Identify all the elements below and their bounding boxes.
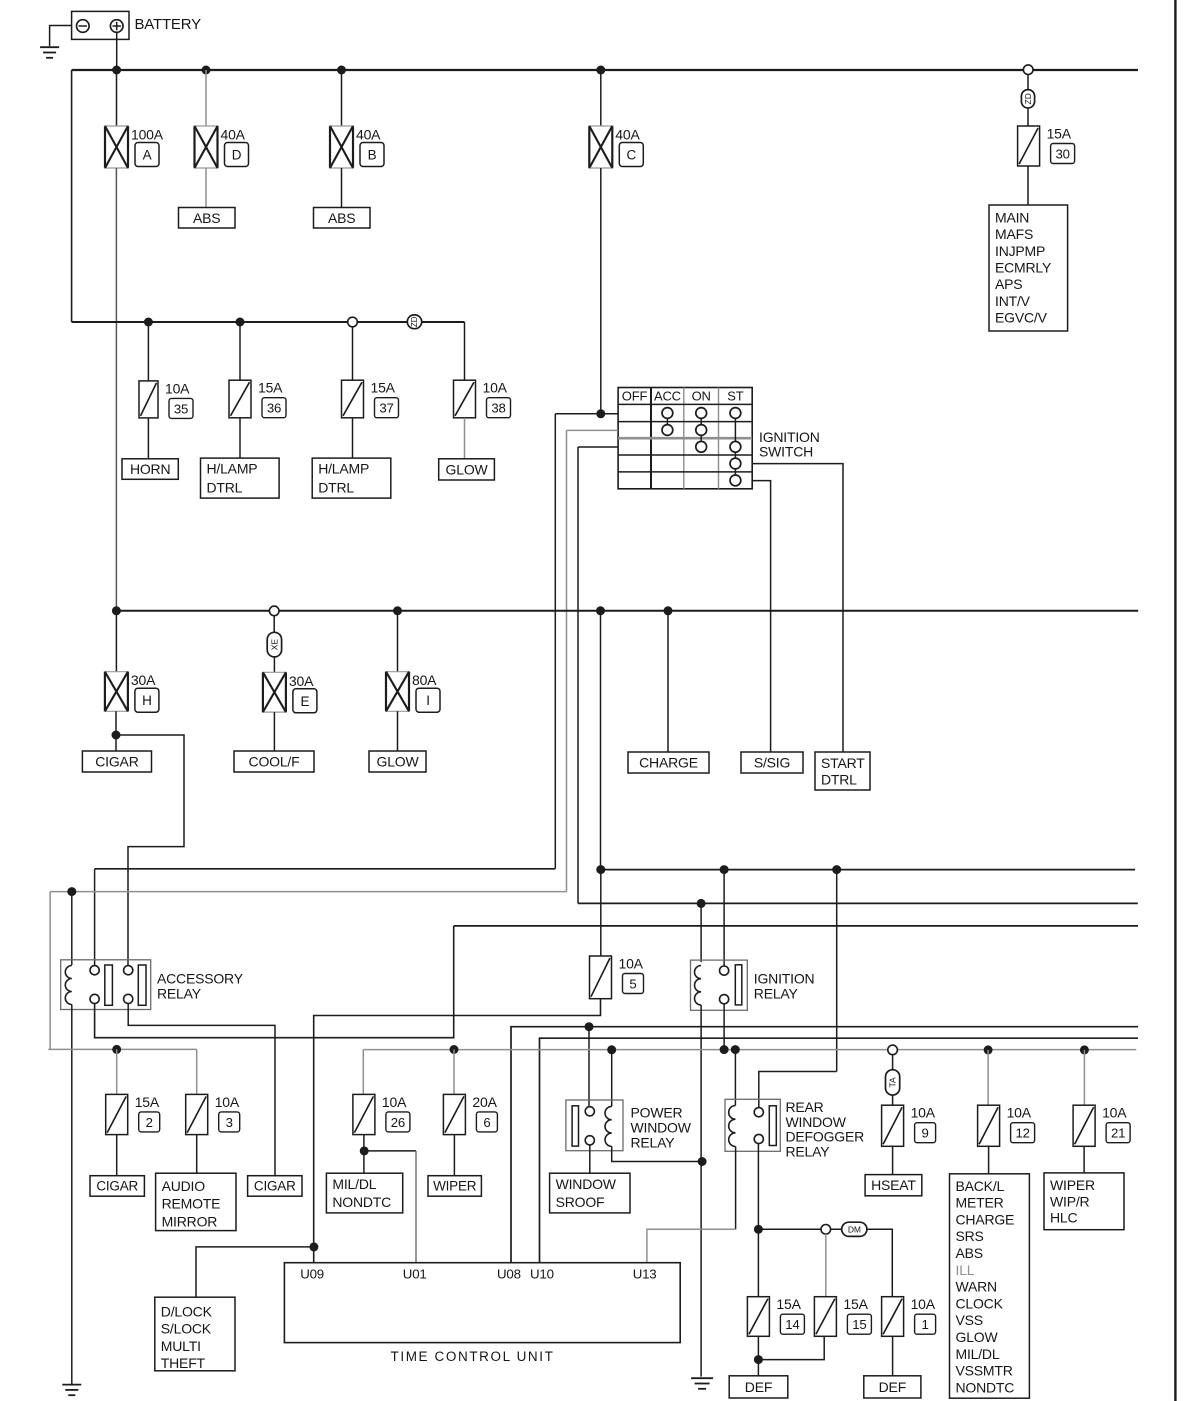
connector DM	[842, 1222, 867, 1236]
wire pw relay coil to ground	[612, 1146, 701, 1161]
wire relay contact feed bus	[601, 869, 1135, 871]
svg-text:THEFT: THEFT	[161, 1355, 206, 1371]
wire export branch (fuse6 row feed)	[454, 925, 1138, 927]
svg-text:U13: U13	[633, 1266, 657, 1281]
node pw relay coil tap	[607, 1045, 616, 1054]
wire ignition relay coil to ground	[700, 1005, 702, 1162]
fuse 36 15A	[229, 380, 286, 418]
wire fuse B to ABS	[341, 168, 343, 208]
relay: power window relay	[566, 1100, 623, 1151]
wire ON row riser	[577, 447, 579, 903]
wire ACC row stub	[567, 429, 619, 431]
svg-text:14: 14	[785, 1317, 799, 1332]
svg-text:U10: U10	[530, 1266, 554, 1281]
svg-text:U08: U08	[497, 1266, 521, 1281]
node fuse 37 connector tap	[348, 317, 358, 327]
svg-text:15: 15	[852, 1317, 866, 1332]
connector XE	[267, 632, 281, 657]
svg-text:H/LAMP: H/LAMP	[207, 461, 258, 477]
svg-text:DEFOGGER: DEFOGGER	[786, 1129, 865, 1145]
wire fuse 2 to CIGAR	[116, 1135, 118, 1176]
svg-text:DM: DM	[848, 1224, 861, 1234]
wire defogger contact feed	[759, 1072, 837, 1109]
wire pw relay output to sunroof	[589, 1145, 591, 1173]
svg-text:U09: U09	[300, 1266, 324, 1281]
wire defogger contact feed drop	[836, 870, 838, 1072]
ignition switch label	[759, 429, 820, 459]
load box START DTRL	[815, 752, 870, 790]
wire fuse 3 to audio	[196, 1135, 198, 1174]
wire ZD to fuse 30	[1027, 108, 1029, 126]
load box MIL/DL NONDTC	[326, 1173, 402, 1213]
wire fuse 38 to GLOW	[464, 418, 466, 459]
load box DEF (2)	[864, 1376, 921, 1398]
svg-text:35: 35	[174, 401, 188, 416]
node ignition relay contact tap	[720, 865, 729, 874]
svg-text:10A: 10A	[1102, 1105, 1127, 1121]
load box S/SIG	[741, 752, 803, 773]
node bus3 main drop	[596, 606, 605, 615]
fuse 6 20A	[443, 1094, 497, 1135]
svg-text:CHARGE: CHARGE	[639, 755, 698, 771]
svg-text:B: B	[368, 148, 377, 163]
wire fuse 36 to H/LAMP DTRL	[239, 418, 241, 458]
svg-text:WIPER: WIPER	[433, 1178, 477, 1193]
svg-text:MAFS: MAFS	[995, 226, 1033, 242]
svg-text:H: H	[142, 693, 152, 708]
wire TA to fuse 9	[892, 1095, 894, 1105]
wire to TA connector	[892, 1055, 894, 1070]
node fuse B tap	[337, 66, 346, 75]
svg-text:10A: 10A	[619, 956, 644, 972]
fusible link D 40A	[194, 126, 249, 168]
svg-text:COOL/F: COOL/F	[249, 754, 300, 770]
wire bus to fuse D	[205, 70, 207, 126]
svg-text:SROOF: SROOF	[556, 1194, 605, 1210]
wire TCU U13 link	[647, 1229, 736, 1262]
wire XE to fuse E	[273, 657, 275, 672]
svg-text:MIRROR: MIRROR	[162, 1213, 218, 1229]
node fuse 35 tap	[144, 318, 153, 327]
svg-text:HSEAT: HSEAT	[871, 1177, 916, 1193]
svg-text:U01: U01	[403, 1266, 427, 1281]
svg-text:21: 21	[1111, 1126, 1125, 1141]
svg-text:D: D	[232, 148, 242, 163]
load box CIGAR (acc)	[90, 1176, 144, 1197]
wire to fuse 26	[362, 1050, 364, 1095]
wire battery positive down	[116, 32, 118, 70]
fuse 3 10A	[186, 1094, 240, 1135]
wire TCU U10 feed	[540, 1038, 1139, 1263]
wire fuse E to COOL/F	[273, 712, 275, 751]
wire fuse 6 to WIPER	[453, 1135, 455, 1176]
wire acc relay pole2 output to cigar	[128, 1004, 275, 1176]
node ignition relay output joins bus	[720, 1045, 729, 1054]
wire ON row stub	[578, 446, 618, 448]
svg-text:3: 3	[226, 1115, 233, 1130]
wire bus3 to XE connector	[273, 616, 275, 633]
svg-text:INT/V: INT/V	[995, 293, 1031, 309]
ground (left bottom)	[62, 1385, 81, 1396]
svg-text:10A: 10A	[165, 380, 190, 396]
wire fuse H to CIGAR	[115, 711, 117, 751]
wire left border down to bus2	[71, 70, 73, 322]
load box CHARGE	[628, 752, 709, 773]
load box CIGAR (relay fed)	[248, 1176, 302, 1197]
wire fuse C to ignition switch	[600, 168, 602, 414]
svg-text:100A: 100A	[131, 127, 164, 143]
svg-text:ILL: ILL	[956, 1262, 975, 1278]
wire fuse 15 bottom link	[758, 1336, 824, 1359]
svg-text:E: E	[300, 694, 309, 709]
svg-text:10A: 10A	[911, 1296, 936, 1312]
svg-text:MAIN: MAIN	[995, 209, 1029, 225]
svg-text:15A: 15A	[1047, 126, 1072, 142]
svg-text:START: START	[821, 755, 865, 771]
svg-text:ECMRLY: ECMRLY	[995, 260, 1052, 276]
svg-text:REMOTE: REMOTE	[162, 1196, 221, 1212]
svg-text:BACK/L: BACK/L	[956, 1178, 1005, 1194]
node bus3 fuse H junction	[112, 606, 121, 615]
connector ZD (bus2 inline)	[407, 315, 421, 329]
node accessory relay coil tap	[67, 887, 76, 896]
svg-text:40A: 40A	[356, 127, 381, 143]
svg-text:TA: TA	[888, 1077, 898, 1088]
svg-text:30A: 30A	[289, 673, 314, 689]
svg-text:OFF: OFF	[622, 389, 648, 404]
wire to ignition relay contact	[723, 870, 725, 966]
load box MAIN/MAFS/INJPMP/ECMRLY/APS/INT/V/EGVC/V	[989, 205, 1068, 331]
ground (center)	[691, 1378, 713, 1389]
svg-text:GLOW: GLOW	[377, 754, 420, 770]
relay: rear window defogger relay	[725, 1099, 780, 1151]
wire fuse D to ABS	[205, 168, 207, 208]
wire fuse 1 to DEF	[892, 1336, 894, 1376]
svg-text:HORN: HORN	[130, 461, 170, 477]
svg-text:38: 38	[491, 401, 505, 416]
svg-text:DTRL: DTRL	[821, 772, 857, 788]
node defogger output split	[754, 1225, 763, 1234]
wire ST row to START DTRL	[752, 464, 843, 752]
fuse 21 10A	[1073, 1105, 1130, 1147]
svg-text:10A: 10A	[911, 1105, 936, 1121]
wire battery negative to ground	[50, 26, 72, 47]
node U09 / door lock split	[309, 1242, 318, 1251]
wire fuse 14 to DEF	[757, 1336, 759, 1376]
svg-text:WIPER: WIPER	[1050, 1177, 1095, 1193]
wire fuse 12 to gauge loads	[988, 1146, 990, 1174]
wire accessory relay contact drop	[94, 869, 96, 966]
load box COOL/F	[234, 751, 314, 772]
wire fuse H to accessory relay contact	[116, 735, 184, 966]
fuse 12 10A	[978, 1105, 1035, 1147]
wire ignition BAT row stub	[555, 413, 618, 415]
svg-text:ACC: ACC	[654, 389, 681, 404]
svg-text:DTRL: DTRL	[318, 479, 354, 495]
svg-text:5: 5	[629, 977, 636, 992]
load box DEF (1)	[729, 1376, 788, 1398]
wire ACC feed horizontal	[50, 891, 566, 893]
wire to fuse 6	[453, 1050, 455, 1095]
wire bus3 to fuse I	[397, 611, 399, 672]
fuse 9 10A	[882, 1105, 936, 1147]
node fuse 6 tap	[450, 1045, 459, 1054]
wire acc relay coil feed	[71, 892, 73, 965]
svg-text:VSSMTR: VSSMTR	[956, 1363, 1013, 1379]
svg-text:H/LAMP: H/LAMP	[318, 461, 369, 477]
wire bus2 to fuse 36	[239, 322, 241, 380]
svg-text:I: I	[426, 693, 430, 708]
svg-text:S/LOCK: S/LOCK	[161, 1321, 212, 1337]
svg-text:ZD: ZD	[1023, 93, 1033, 104]
node fuse C joins BAT row	[596, 409, 605, 418]
svg-text:36: 36	[267, 401, 281, 416]
svg-text:9: 9	[922, 1126, 929, 1141]
wire bus3 to fuse H	[115, 611, 117, 672]
wire ACC-ST row to S/SIG	[752, 481, 770, 752]
bus IGN fuses feed	[363, 1049, 1136, 1051]
connector TA	[886, 1070, 900, 1095]
load box BACK/L..NONDTC	[950, 1174, 1030, 1398]
wire bus3 to CHARGE	[667, 611, 669, 752]
svg-text:ABS: ABS	[956, 1245, 983, 1261]
svg-text:SWITCH: SWITCH	[759, 444, 813, 460]
svg-text:VSS: VSS	[956, 1312, 983, 1328]
svg-text:XE: XE	[269, 639, 279, 651]
connector ZD (top)	[1021, 90, 1034, 108]
ground (battery)	[40, 47, 59, 58]
wire fuse 21 to wiper loads	[1083, 1146, 1085, 1173]
load box HSEAT	[865, 1175, 922, 1196]
svg-text:12: 12	[1015, 1126, 1029, 1141]
svg-text:RELAY: RELAY	[754, 986, 799, 1002]
svg-text:WINDOW: WINDOW	[786, 1114, 847, 1130]
svg-text:AUDIO: AUDIO	[162, 1178, 206, 1194]
svg-text:20A: 20A	[472, 1094, 497, 1110]
bus B+ (battery feed)	[72, 69, 1138, 71]
node fuse 15 connector tap	[821, 1225, 831, 1235]
svg-text:CIGAR: CIGAR	[96, 1178, 138, 1193]
svg-text:RELAY: RELAY	[631, 1134, 676, 1150]
wire TCU U08 feed	[511, 1027, 1138, 1263]
fuse 5 10A	[590, 956, 644, 999]
svg-text:MULTI: MULTI	[161, 1338, 201, 1354]
svg-text:APS: APS	[995, 276, 1022, 292]
node fuse D tap	[202, 66, 211, 75]
svg-text:WARN: WARN	[956, 1279, 997, 1295]
node fuse 30 connector tap	[1023, 65, 1033, 75]
svg-text:A: A	[143, 148, 152, 163]
svg-text:ABS: ABS	[193, 210, 220, 226]
svg-text:26: 26	[391, 1115, 405, 1130]
load box AUDIO REMOTE MIRROR	[156, 1173, 236, 1230]
wire fuse 26 to TCU U01	[364, 1151, 416, 1263]
svg-text:80A: 80A	[412, 672, 437, 688]
node battery junction on bus	[112, 66, 121, 75]
svg-text:30: 30	[1055, 147, 1069, 162]
svg-text:40A: 40A	[615, 127, 640, 143]
fusible link I 80A	[385, 672, 440, 713]
svg-text:CLOCK: CLOCK	[956, 1295, 1004, 1311]
wire ignition relay coil feed	[700, 903, 702, 962]
bus ACC fuses feed	[48, 1048, 196, 1050]
bus headlamp feed (right segment)	[422, 321, 465, 323]
wire to fuse 15	[825, 1234, 827, 1297]
fuse 2 15A	[106, 1094, 160, 1135]
svg-text:D/LOCK: D/LOCK	[161, 1303, 213, 1319]
svg-text:WIP/R: WIP/R	[1050, 1193, 1090, 1209]
node relay feed split	[596, 865, 605, 874]
node fuse 21 tap	[1080, 1045, 1089, 1054]
wire ON feed horizontal	[578, 902, 1138, 904]
wire fuse 9 to HSEAT	[892, 1146, 894, 1174]
wire DM to fuse 1	[867, 1229, 892, 1296]
wire bus2 to fuse 37	[352, 327, 354, 381]
svg-text:2: 2	[146, 1115, 153, 1130]
load box ABS (2)	[314, 208, 371, 229]
svg-text:WINDOW: WINDOW	[556, 1176, 617, 1192]
svg-text:10A: 10A	[382, 1094, 407, 1110]
load box H/LAMP DTRL (2)	[312, 458, 391, 498]
svg-text:POWER: POWER	[631, 1104, 683, 1120]
fuse 15 15A	[814, 1296, 871, 1336]
svg-text:HLC: HLC	[1050, 1210, 1077, 1226]
node bus3 charge tap	[664, 606, 673, 615]
wire pw relay coil feed	[611, 1050, 613, 1107]
ignition switch contact table	[618, 388, 752, 489]
wire bus3 down to relay feed node	[600, 611, 602, 870]
fuse 1 10A	[882, 1296, 936, 1336]
right page border	[1174, 0, 1176, 1401]
wire defogger relay coil feed	[734, 1050, 736, 1106]
wire common ground drop	[700, 1162, 702, 1377]
svg-text:MIL/DL: MIL/DL	[956, 1346, 1000, 1362]
wire defogger output to DM branch	[758, 1228, 841, 1230]
wire acc relay coil to ground	[71, 1005, 73, 1385]
svg-text:NONDTC: NONDTC	[332, 1194, 391, 1210]
svg-text:ST: ST	[727, 389, 743, 404]
svg-text:NONDTC: NONDTC	[956, 1379, 1015, 1395]
svg-text:15A: 15A	[843, 1296, 868, 1312]
load box HORN	[122, 459, 178, 480]
wire to fuse 12	[987, 1050, 989, 1105]
svg-text:ACCESSORY: ACCESSORY	[157, 971, 244, 987]
wire bus to ZD connector	[1027, 74, 1029, 90]
svg-text:DEF: DEF	[879, 1379, 906, 1395]
svg-text:SRS: SRS	[956, 1228, 984, 1244]
svg-text:CIGAR: CIGAR	[95, 754, 138, 770]
wire feed to fuse 5	[600, 870, 602, 956]
relay: accessory relay	[61, 960, 151, 1010]
svg-text:DEF: DEF	[745, 1379, 772, 1395]
node fuse 12 tap	[984, 1045, 993, 1054]
svg-text:37: 37	[379, 401, 393, 416]
svg-text:15A: 15A	[258, 380, 283, 396]
relay: ignition relay	[691, 960, 748, 1010]
wire defogger contact output	[757, 1144, 759, 1297]
svg-text:INJPMP: INJPMP	[995, 243, 1045, 259]
node defogger contact feed tap	[832, 865, 841, 874]
svg-text:15A: 15A	[135, 1094, 160, 1110]
svg-text:REAR: REAR	[786, 1099, 824, 1115]
fuse 26 10A	[353, 1094, 410, 1135]
wire bus to fuse B	[341, 70, 343, 126]
svg-text:MIL/DL: MIL/DL	[332, 1176, 376, 1192]
node bus3 fuse E connector	[269, 606, 279, 616]
svg-text:10A: 10A	[1007, 1105, 1032, 1121]
svg-text:10A: 10A	[215, 1094, 240, 1110]
accessory relay label	[157, 971, 244, 1002]
load box CIGAR (main)	[82, 751, 151, 772]
wire to D/LOCK module	[196, 1247, 314, 1297]
node power window relay contact tap	[585, 1022, 594, 1031]
node fuse C tap	[596, 66, 605, 75]
wire to fuse 21	[1083, 1050, 1085, 1105]
svg-text:ON: ON	[692, 389, 711, 404]
power window relay label	[631, 1104, 692, 1150]
wire pw relay contact feed	[588, 1027, 590, 1107]
node fuse 2 tap	[112, 1045, 121, 1054]
node fuse 9 connector tap	[888, 1045, 898, 1055]
load box H/LAMP DTRL (1)	[201, 458, 280, 498]
wire BAT row riser	[554, 414, 556, 869]
svg-text:RELAY: RELAY	[157, 986, 202, 1002]
wire to fuse 3	[196, 1049, 198, 1094]
bus ignition feed (bus3)	[116, 610, 1138, 612]
node defogger relay coil tap	[731, 1045, 740, 1054]
svg-text:ABS: ABS	[328, 210, 355, 226]
svg-text:RELAY: RELAY	[786, 1143, 831, 1159]
fuse 35 10A	[139, 380, 193, 418]
battery	[72, 11, 201, 39]
svg-text:GLOW: GLOW	[446, 461, 489, 477]
svg-text:30A: 30A	[131, 672, 156, 688]
defogger relay label	[786, 1099, 865, 1159]
node fuse 14/15 output join	[754, 1355, 763, 1364]
wire bus2 corner down to fuse 38	[464, 322, 466, 380]
load box ABS (1)	[179, 208, 236, 229]
svg-text:10A: 10A	[483, 380, 508, 396]
wire ACC feed left riser	[49, 892, 51, 1050]
svg-text:15A: 15A	[776, 1296, 801, 1312]
svg-text:6: 6	[483, 1115, 490, 1130]
wire bus2 to fuse 35	[147, 322, 149, 381]
wire fuse 26 to MIL/DL	[363, 1135, 365, 1174]
node ground join pw coil	[698, 1157, 707, 1166]
svg-text:BATTERY: BATTERY	[135, 16, 202, 33]
svg-text:WINDOW: WINDOW	[631, 1119, 692, 1135]
fuse 37 15A	[342, 380, 399, 418]
load box GLOW (2)	[369, 751, 426, 772]
wire bus to fuse A	[116, 70, 118, 126]
svg-text:GLOW: GLOW	[956, 1329, 999, 1345]
node fuse 36 tap	[236, 318, 245, 327]
wire acc relay pole1 output	[95, 926, 454, 1038]
wire defogger coil to TCU U13	[735, 1147, 737, 1230]
fuse 38 10A	[454, 380, 511, 418]
wire fuse 37 to H/LAMP DTRL	[352, 418, 354, 458]
wire fuse 30 to ECM loads	[1027, 166, 1029, 205]
load box WIPER WIP/R HLC	[1044, 1173, 1124, 1230]
wire ignition relay contact output	[723, 1004, 725, 1050]
bus headlamp feed (left segment)	[72, 321, 408, 323]
svg-text:1: 1	[922, 1317, 929, 1332]
load box WINDOW SROOF	[550, 1173, 630, 1213]
svg-text:CHARGE: CHARGE	[956, 1211, 1015, 1227]
svg-text:ZD: ZD	[410, 316, 419, 327]
load box D/LOCK S/LOCK MULTI THEFT	[155, 1297, 235, 1371]
wire fuse 5 to TCU U09	[314, 999, 601, 1263]
